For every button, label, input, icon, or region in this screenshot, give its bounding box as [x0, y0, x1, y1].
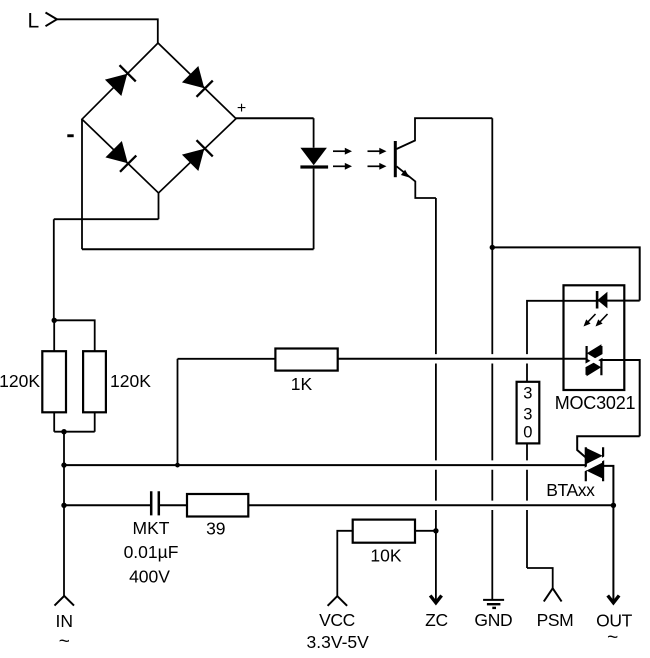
svg-text:~: ~ [607, 628, 618, 649]
svg-text:L: L [28, 10, 40, 33]
svg-text:PSM: PSM [537, 610, 574, 630]
svg-text:VCC: VCC [319, 610, 355, 630]
svg-text:ZC: ZC [425, 610, 448, 630]
svg-text:3: 3 [523, 385, 532, 403]
svg-text:120K: 120K [0, 371, 40, 391]
svg-text:MKT: MKT [133, 518, 170, 538]
svg-text:120K: 120K [110, 371, 151, 391]
svg-text:BTAxx: BTAxx [546, 480, 595, 500]
svg-text:3.3V-5V: 3.3V-5V [307, 632, 370, 652]
svg-text:IN: IN [56, 611, 74, 631]
svg-text:+: + [237, 100, 246, 117]
svg-text:3: 3 [523, 406, 532, 424]
svg-text:0: 0 [523, 424, 532, 442]
svg-text:MOC3021: MOC3021 [555, 393, 636, 413]
svg-text:GND: GND [474, 610, 512, 630]
svg-text:~: ~ [59, 632, 70, 653]
svg-text:1K: 1K [291, 374, 313, 394]
svg-text:0.01µF: 0.01µF [124, 542, 179, 562]
svg-text:400V: 400V [129, 567, 170, 587]
svg-text:39: 39 [206, 519, 225, 539]
svg-text:10K: 10K [370, 546, 401, 566]
